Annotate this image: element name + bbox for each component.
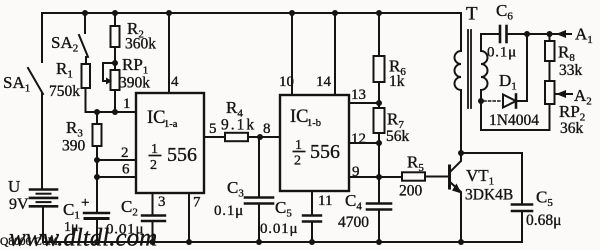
svg-text:1-b: 1-b [307,118,321,129]
svg-text:2: 2 [294,154,301,169]
svg-text:36k: 36k [560,120,584,137]
svg-text:1: 1 [123,96,131,112]
svg-text:6: 6 [122,162,130,178]
svg-text:9: 9 [352,164,360,180]
svg-text:10: 10 [279,74,294,90]
svg-text:200: 200 [399,183,423,200]
svg-text:0.1μ: 0.1μ [487,45,517,61]
svg-text:14: 14 [316,74,332,90]
svg-text:33k: 33k [559,62,583,79]
svg-text:2: 2 [150,158,157,173]
svg-text:5: 5 [209,121,217,137]
svg-text:556: 556 [310,141,340,163]
svg-text:4: 4 [171,74,179,90]
svg-text:13: 13 [351,87,366,103]
svg-text:T: T [466,4,478,25]
svg-text:390: 390 [62,138,86,155]
svg-text:1N4004: 1N4004 [489,112,539,129]
svg-text:556: 556 [167,144,197,166]
svg-text:1k: 1k [389,73,405,90]
svg-text:750k: 750k [49,83,80,100]
svg-text:IC: IC [147,108,166,128]
svg-text:360k: 360k [125,36,156,53]
svg-text:0.1μ: 0.1μ [214,203,244,219]
svg-text:390k: 390k [119,75,150,92]
svg-text:8: 8 [263,121,271,137]
svg-text:1-a: 1-a [164,119,178,130]
svg-text:0.68μ: 0.68μ [526,212,561,229]
svg-text:U: U [8,177,20,196]
svg-text:3DK4B: 3DK4B [465,187,513,204]
svg-text:2: 2 [121,145,129,161]
svg-text:7: 7 [193,195,201,211]
svg-text:3: 3 [158,194,166,210]
svg-text:12: 12 [351,131,366,147]
svg-text:IC: IC [290,107,309,127]
svg-text:+: + [81,195,89,211]
svg-text:11: 11 [318,193,332,209]
svg-text:9V: 9V [9,196,29,213]
svg-text:56k: 56k [386,128,410,145]
svg-text:4700: 4700 [338,214,369,231]
svg-text:9.1k: 9.1k [221,117,256,134]
svg-text:www.dltdl.com: www.dltdl.com [9,225,157,250]
svg-text:0.01μ: 0.01μ [260,221,298,237]
